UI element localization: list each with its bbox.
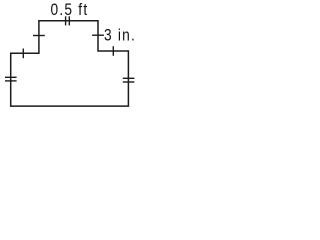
top edge double tick [65, 16, 67, 25]
right edge double tick [123, 77, 135, 79]
right upper vertical single tick [92, 34, 104, 36]
left edge double tick [5, 76, 17, 78]
left shoulder single tick [22, 49, 24, 59]
composite figure outline [11, 21, 129, 106]
svg-text:0.5 ft: 0.5 ft [51, 1, 89, 20]
left upper vertical single tick [33, 35, 45, 37]
svg-text:3 in.: 3 in. [104, 26, 136, 45]
right mid single tick [112, 46, 114, 56]
